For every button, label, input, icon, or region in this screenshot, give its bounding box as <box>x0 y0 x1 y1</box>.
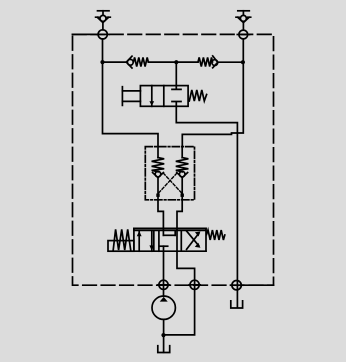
pump PU1 <box>152 296 175 319</box>
wire: pump suction to tank <box>163 319 165 352</box>
node: junction suction <box>161 333 165 337</box>
V2 left position arrows <box>137 230 154 251</box>
wire: solid top boundary piece corner to P1 <box>73 33 99 35</box>
valve V1 (2/2 unloading valve) body <box>140 86 188 107</box>
V1 spring (right) <box>189 90 206 101</box>
check valve CV2 (right, spring loaded) <box>198 56 218 68</box>
port circle P3 (pump pressure at boundary) <box>158 280 169 289</box>
check valve CV1 (left, spring loaded) <box>126 56 148 68</box>
node: junction left <box>100 60 104 64</box>
wire: check line right segment <box>218 61 243 63</box>
port circle P1 (top left boundary) <box>97 30 109 39</box>
wire: V1 drain to tank (long right line) <box>176 106 237 307</box>
wire: A line from box to valve V2 <box>158 200 163 229</box>
wire: solid bottom boundary piece circle to corner <box>241 284 273 286</box>
tank T1 (bottom right) <box>231 301 243 308</box>
wire: check line middle segment <box>148 61 198 63</box>
V2 centre position symbols <box>159 230 175 251</box>
V2 left spring (tall zigzag) <box>113 229 131 250</box>
test point M1 (top left) <box>96 11 111 30</box>
tank T2 (bottom centre) <box>158 346 170 353</box>
V2 right position crossed arrows <box>187 231 201 249</box>
dual pilot check valve box (dash-dot) <box>145 147 194 200</box>
wire: right riser from P2 down to shuttle box <box>182 39 243 147</box>
V2 left pilot box <box>108 241 134 252</box>
enclosure dashed boundary <box>73 34 274 285</box>
wire: P line from valve to pump <box>163 246 165 296</box>
port circle P2 (top right boundary) <box>237 30 249 39</box>
test point M2 (top right) <box>236 11 251 30</box>
wire: V1 pilot line up to check line <box>175 62 177 85</box>
pilot check valve PC1 (left) <box>152 147 165 200</box>
wire: B line from box through valve to tank junction <box>163 200 194 335</box>
wire: check line left segment <box>103 61 127 63</box>
pilot check valve PC2 (right) <box>176 147 189 200</box>
node: junction at pilot tap <box>174 60 178 64</box>
valve V2 (directional 4/3) body <box>134 228 206 251</box>
port circle P5 (bottom right boundary) <box>231 281 244 290</box>
node: junction right <box>241 60 245 64</box>
port circle P4 (return at boundary) <box>189 280 200 289</box>
wire: left main riser <box>103 39 159 147</box>
V2 right spring <box>207 230 225 240</box>
V1 pilot actuator (left plunger) <box>122 87 140 106</box>
pilot cross lines (dashed X) <box>158 173 182 193</box>
V1 right position blocked ports <box>172 86 181 107</box>
V1 left position flow arrow <box>149 86 154 107</box>
